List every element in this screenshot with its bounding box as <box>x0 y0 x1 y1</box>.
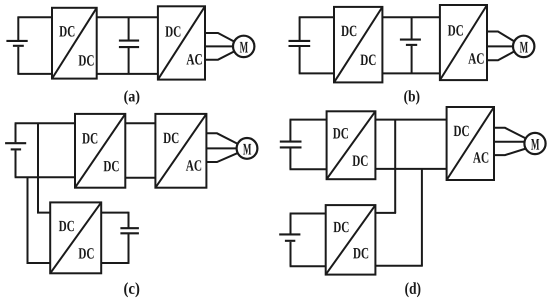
battery (b) dc-link <box>400 17 421 73</box>
wire b input bottom <box>299 72 334 74</box>
wire d battery bottom <box>290 265 326 267</box>
capacitor (b) input <box>289 17 311 73</box>
DC/DC converter U2 (d) lower <box>326 205 376 275</box>
wire c tap positive <box>38 123 50 212</box>
label (b) <box>404 90 419 105</box>
wire c phase middle <box>206 147 236 149</box>
wire b dc-link bottom <box>382 72 440 74</box>
wire d phase bottom <box>494 149 526 156</box>
motor M (c) <box>237 138 258 159</box>
wire b phase top <box>487 32 515 42</box>
DC/AC inverter U3 (d) <box>447 107 494 180</box>
label (c) <box>124 282 139 297</box>
battery (a) <box>6 17 27 74</box>
wire c phase bottom <box>206 153 237 162</box>
motor M (d) <box>524 133 545 154</box>
wire a battery bottom <box>17 73 52 75</box>
wire c battery bottom <box>15 176 75 178</box>
DC/AC inverter U2 (a) <box>158 6 205 79</box>
wire a phase middle <box>205 45 233 47</box>
wire c lower output top <box>101 212 128 214</box>
capacitor (d) input <box>280 120 302 170</box>
wire c dc-link bottom <box>125 177 155 179</box>
wire c dc-link top <box>125 122 155 124</box>
DC/DC converter U3 (c) lower <box>50 202 101 273</box>
battery (c) <box>5 123 26 177</box>
capacitor (c) lower <box>120 212 138 264</box>
DC/DC converter U1 (a) <box>52 8 97 79</box>
label (a) <box>124 90 139 105</box>
capacitor (a) dc-link <box>119 17 139 74</box>
wire a dc-link top <box>97 16 158 18</box>
wire c lower output bottom <box>101 262 128 264</box>
motor M (b) <box>513 36 534 57</box>
wire a battery top <box>17 16 52 18</box>
DC/DC converter U1 (b) <box>334 7 382 83</box>
battery (d) <box>279 214 300 267</box>
wire c tap negative <box>28 177 51 263</box>
DC/AC inverter U2 (c) <box>155 114 206 188</box>
wire b phase bottom <box>487 51 515 60</box>
wire c battery top <box>15 122 75 124</box>
wire d battery top <box>290 213 326 215</box>
wire b input top <box>299 16 334 18</box>
wire a phase bottom <box>205 51 235 60</box>
wire d phase top <box>494 128 526 139</box>
wire b phase middle <box>487 45 513 47</box>
wire d bus positive <box>394 120 396 213</box>
wire c phase top <box>206 133 237 143</box>
wire d lower output bottom <box>375 265 422 267</box>
wire d lower output top <box>375 212 396 214</box>
wire d phase middle <box>494 141 525 143</box>
label (d) <box>405 282 420 297</box>
wire d dc-link top <box>375 119 446 121</box>
wire d dc-link bottom <box>375 168 446 170</box>
wire d cap bottom <box>290 168 327 170</box>
wire a dc-link bottom <box>97 73 158 75</box>
DC/DC converter U1 (c) <box>75 114 125 188</box>
DC/AC inverter U2 (b) <box>440 5 487 80</box>
wire d bus negative <box>421 169 423 266</box>
wire d cap top <box>290 119 327 121</box>
wire a phase top <box>205 33 235 42</box>
DC/DC converter U1 (d) upper <box>327 111 376 179</box>
motor M (a) <box>233 36 254 57</box>
wire b dc-link top <box>382 16 440 18</box>
